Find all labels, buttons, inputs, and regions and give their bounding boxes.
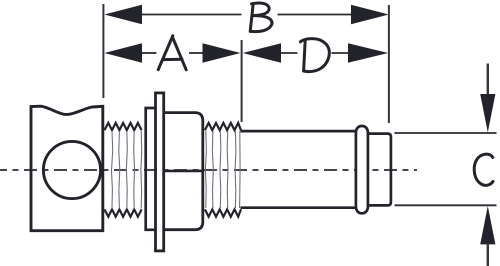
- thread section 2 flank lines: [205, 131, 240, 208]
- dimension C up arrow: [480, 206, 495, 266]
- dimension C down arrow: [480, 64, 495, 133]
- extension line right: [388, 5, 390, 123]
- barb tube top edge: [241, 130, 357, 133]
- thread section 1 bottom zigzag: [104, 209, 141, 216]
- thread section 2 top zigzag: [205, 123, 241, 130]
- dimension A line: [141, 52, 203, 54]
- label C: [474, 154, 493, 185]
- hole circle: [43, 141, 100, 198]
- thread section 1 flank lines: [112, 131, 142, 209]
- extension line left: [102, 4, 104, 98]
- dimension B line: [141, 14, 352, 16]
- hull block (broken section): [31, 106, 103, 231]
- label B: [250, 3, 272, 32]
- label D: [300, 39, 329, 72]
- extension line middle: [241, 40, 243, 122]
- dimension C extension line bottom: [395, 204, 497, 206]
- centerline: [0, 169, 417, 171]
- barb end cap: [367, 134, 391, 206]
- dimension A right arrowhead: [203, 43, 241, 63]
- dimension C extension line top: [395, 132, 497, 134]
- thread section 1 top zigzag: [104, 123, 141, 130]
- label A: [158, 36, 186, 70]
- barb ring: [356, 126, 368, 213]
- gasket: [146, 108, 156, 230]
- dimension D left arrowhead: [243, 43, 281, 63]
- dimension D line: [281, 52, 349, 54]
- dimension A left arrowhead: [104, 43, 142, 63]
- hex nut body: [164, 113, 203, 230]
- hex nut middle facet line: [164, 170, 203, 173]
- flange plate: [156, 93, 164, 251]
- dimension B right arrowhead: [351, 5, 389, 25]
- thread section 2 bottom zigzag: [205, 209, 241, 217]
- barb tube bottom edge: [241, 206, 357, 209]
- dimension D right arrowhead: [348, 43, 388, 63]
- dimension B left arrowhead: [104, 5, 142, 25]
